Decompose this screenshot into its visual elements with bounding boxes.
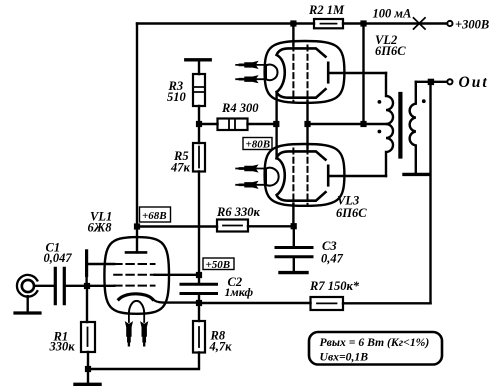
wire VL1 g2 lead to +50В node: [155, 274, 200, 276]
info box: [309, 332, 442, 365]
resistor R2: [314, 19, 343, 28]
svg-text:510: 510: [167, 90, 187, 104]
wire anode row to R6 and VL3 g1: [137, 225, 294, 228]
wire VL3 g2 lead up: [306, 124, 308, 149]
svg-text:0,047: 0,047: [44, 251, 73, 265]
tube VL2 heater leads with arrows: [236, 65, 266, 79]
transformer phasing dot primary bottom: [378, 130, 382, 134]
svg-text:6П6С: 6П6С: [375, 44, 406, 58]
wire VL2 g1 lead up: [292, 24, 294, 46]
tube VL3 beam plates and cathode: [277, 151, 326, 200]
tube VL1 heater leads with arrows: [129, 314, 144, 323]
capacitor C3: [293, 229, 295, 246]
tube VL3 envelope: [265, 144, 345, 206]
node junction Out feedback: [428, 79, 434, 85]
wire feedback vertical: [429, 85, 431, 303]
node junction B+ center tap: [360, 121, 366, 127]
node junction screens: [304, 121, 310, 127]
transformer T1 primary winding: [386, 73, 393, 176]
svg-text:47к: 47к: [170, 161, 191, 175]
tube VL3 grid g2 dashed: [307, 149, 309, 205]
wire bottom feedback rail: [199, 302, 431, 305]
svg-text:R4 300: R4 300: [221, 101, 259, 115]
transformer phasing dot secondary: [422, 99, 426, 103]
wire C1 to grid node: [66, 285, 114, 287]
resistor R1: [87, 289, 88, 366]
wire input to C1: [34, 285, 53, 287]
svg-text:100 мА: 100 мА: [373, 7, 412, 21]
svg-text:6Ж8: 6Ж8: [88, 221, 113, 235]
tube VL1 cathode wire to bottom rail: [153, 299, 199, 302]
tube VL1 anode: [126, 251, 146, 254]
wire secondary top to Out: [416, 81, 447, 83]
tube VL1 envelope: [104, 237, 169, 314]
ground secondary chassis bar: [404, 173, 430, 176]
resistor R4: [218, 119, 248, 131]
svg-text:Out: Out: [459, 74, 489, 91]
svg-text:330к: 330к: [49, 340, 76, 354]
tube VL2 anode: [327, 63, 330, 83]
svg-text:R2 1М: R2 1М: [308, 3, 345, 17]
svg-text:0,47: 0,47: [321, 252, 344, 266]
resistor R7: [311, 297, 344, 310]
wire VL3 g1 lead down: [292, 204, 294, 227]
tube VL3 heater leads with arrows: [236, 169, 266, 185]
svg-text:R6 330к: R6 330к: [216, 205, 260, 219]
tube VL2 beam plates and cathode: [277, 48, 326, 97]
wire grid bar to g1: [87, 263, 115, 265]
resistor R3 top bar terminal: [186, 58, 210, 61]
wire top rail: [137, 22, 447, 24]
wire VL2 g2 lead down: [306, 101, 308, 125]
capacitor C2: [198, 278, 200, 283]
node junction grid / R1: [84, 283, 90, 289]
node junction +50В: [196, 272, 202, 278]
resistor R3: [198, 62, 200, 122]
tube VL2 grid g2 dashed: [307, 46, 309, 102]
wire VL3 anode to primary bottom: [328, 175, 386, 177]
svg-text:R7 150к*: R7 150к*: [309, 279, 360, 293]
tube VL1 grid g2 dashed: [114, 274, 154, 276]
transformer phasing dot primary top: [378, 100, 382, 104]
tube VL2 grid g1 dashed: [292, 46, 294, 102]
wire B+ vertical to screens/center-tap: [362, 24, 364, 125]
terminal Out: [447, 79, 452, 84]
transformer T1 secondary winding: [410, 82, 416, 175]
tube VL3 anode: [327, 166, 330, 186]
node junction top B+: [360, 20, 366, 26]
tube VL2 heater: [266, 65, 278, 81]
terminal +300В: [447, 21, 452, 26]
node junction cathode / C2 / R8: [196, 300, 202, 306]
node junction R1 bottom: [85, 366, 91, 372]
label +50В boxed: [203, 258, 234, 270]
svg-text:Uвх=0,1В: Uвх=0,1В: [320, 351, 369, 364]
node junction top g1: [290, 20, 296, 26]
svg-text:+68В: +68В: [142, 210, 167, 222]
tube VL3 grid g1 dashed: [292, 149, 294, 205]
tube VL1 heater: [129, 301, 144, 314]
ground input chassis bar: [15, 311, 40, 314]
node junction R3-R5-R4: [196, 121, 202, 127]
transformer T1 core: [398, 94, 402, 157]
label +80В boxed: [243, 138, 272, 150]
ground C3 chassis bar: [280, 271, 307, 274]
capacitor C1: [55, 268, 64, 303]
node junction VL2 cathode: [273, 121, 279, 127]
svg-text:4,7к: 4,7к: [209, 340, 233, 354]
node junction VL3 g1 / C3: [291, 223, 297, 229]
svg-text:6П6С: 6П6С: [336, 206, 367, 220]
tube VL1 grid g1 dashed: [114, 263, 154, 265]
tube VL2 envelope: [265, 41, 345, 103]
wire left vertical from top rail to VL1 anode node: [136, 24, 138, 227]
wire VL2 cathode to VL3 cathode: [275, 124, 277, 159]
tube VL1 cathode: [119, 294, 153, 299]
wire VL2 cathode lead down: [275, 92, 277, 124]
wire VL2 anode to primary top: [328, 72, 386, 74]
resistor R8: [198, 306, 200, 321]
input ground stem: [27, 296, 29, 311]
tube VL1 grid g3 dashed: [114, 285, 154, 287]
wire VL1 anode lead: [136, 227, 138, 253]
wire bias row R4 to cathode node: [199, 123, 276, 125]
ground R1 chassis bar: [75, 383, 100, 386]
svg-text:+300В: +300В: [455, 17, 489, 31]
ground R1 stem: [87, 372, 89, 383]
svg-text:Рвых = 6 Вт (Кг<1%): Рвых = 6 Вт (Кг<1%): [320, 336, 430, 349]
wire screens row to center tap: [308, 123, 387, 125]
tube VL3 heater: [266, 168, 279, 186]
wire R1 to R8 bottom: [88, 353, 199, 370]
measurement cross X: [414, 18, 426, 29]
node junction VL1 anode: [134, 223, 140, 229]
wire grid bar to node: [85, 275, 87, 283]
tube VL1 grid cap bar: [85, 251, 88, 275]
svg-text:+50В: +50В: [206, 259, 231, 271]
svg-text:+80В: +80В: [246, 139, 271, 151]
resistor R5: [198, 127, 200, 272]
svg-text:1мкф: 1мкф: [225, 285, 254, 299]
input terminal connector: [17, 275, 37, 297]
label +68В boxed: [140, 207, 171, 222]
resistor R6: [217, 220, 248, 232]
